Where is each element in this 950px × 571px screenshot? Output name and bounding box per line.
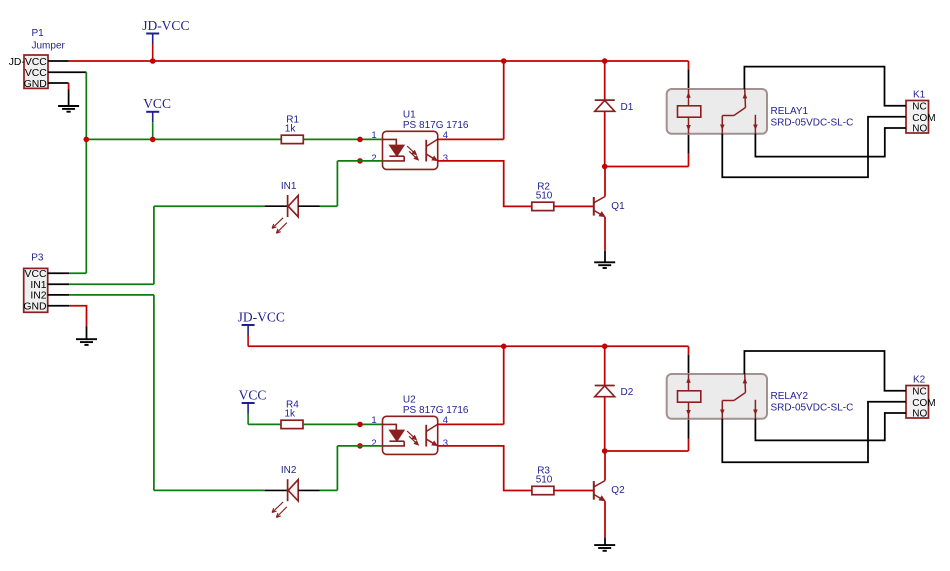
svg-text:3: 3 xyxy=(443,153,448,164)
svg-text:1k: 1k xyxy=(285,408,297,419)
svg-text:IN1: IN1 xyxy=(30,280,46,291)
svg-text:3: 3 xyxy=(443,438,448,449)
svg-text:GND: GND xyxy=(24,79,47,90)
svg-text:JD-VCC: JD-VCC xyxy=(142,18,189,33)
svg-text:RELAY1: RELAY1 xyxy=(771,106,809,117)
svg-text:1: 1 xyxy=(371,130,376,141)
svg-text:IN2: IN2 xyxy=(281,465,297,476)
svg-text:NC: NC xyxy=(912,387,926,398)
svg-text:1: 1 xyxy=(371,415,376,426)
svg-text:VCC: VCC xyxy=(25,68,47,79)
svg-text:2: 2 xyxy=(371,438,376,449)
svg-text:VCC: VCC xyxy=(143,96,171,111)
svg-text:COM: COM xyxy=(912,113,935,124)
svg-text:2: 2 xyxy=(371,153,376,164)
svg-text:P1: P1 xyxy=(32,28,45,39)
svg-text:K1: K1 xyxy=(913,90,926,101)
svg-text:U1: U1 xyxy=(403,110,416,121)
svg-text:P3: P3 xyxy=(31,252,44,263)
svg-text:VCC: VCC xyxy=(25,269,47,280)
svg-text:RELAY2: RELAY2 xyxy=(771,391,809,402)
svg-text:GND: GND xyxy=(23,302,46,313)
svg-text:NC: NC xyxy=(912,102,926,113)
svg-text:1k: 1k xyxy=(285,123,297,134)
svg-text:Jumper: Jumper xyxy=(32,41,66,52)
svg-text:Q1: Q1 xyxy=(611,201,625,212)
svg-text:510: 510 xyxy=(536,190,553,201)
svg-text:IN1: IN1 xyxy=(281,181,297,192)
svg-text:D2: D2 xyxy=(621,387,634,398)
svg-text:JD-VCC: JD-VCC xyxy=(9,57,48,68)
svg-text:SRD-05VDC-SL-C: SRD-05VDC-SL-C xyxy=(771,403,854,414)
svg-text:D1: D1 xyxy=(621,102,634,113)
svg-text:510: 510 xyxy=(536,475,553,486)
svg-text:JD-VCC: JD-VCC xyxy=(238,309,285,324)
svg-text:NO: NO xyxy=(912,409,927,420)
svg-text:COM: COM xyxy=(912,398,935,409)
svg-text:NO: NO xyxy=(912,124,927,135)
svg-text:IN2: IN2 xyxy=(30,291,46,302)
svg-text:U2: U2 xyxy=(403,395,416,406)
svg-text:K2: K2 xyxy=(913,375,926,386)
svg-text:Q2: Q2 xyxy=(611,485,625,496)
svg-text:PS 817G 1716: PS 817G 1716 xyxy=(403,405,469,416)
svg-text:SRD-05VDC-SL-C: SRD-05VDC-SL-C xyxy=(771,118,854,129)
svg-text:VCC: VCC xyxy=(239,387,267,402)
svg-text:PS 817G 1716: PS 817G 1716 xyxy=(403,120,469,131)
